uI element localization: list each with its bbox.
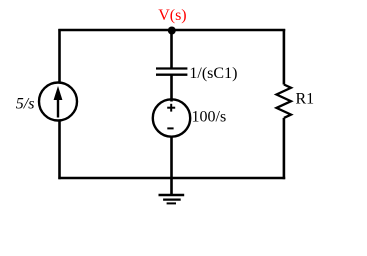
svg-text:1/(sC1): 1/(sC1) xyxy=(189,65,237,82)
svg-text:R1: R1 xyxy=(296,91,315,108)
svg-text:V(s): V(s) xyxy=(158,7,186,24)
svg-text:100/s: 100/s xyxy=(192,109,227,126)
svg-text:5/s: 5/s xyxy=(16,96,35,113)
